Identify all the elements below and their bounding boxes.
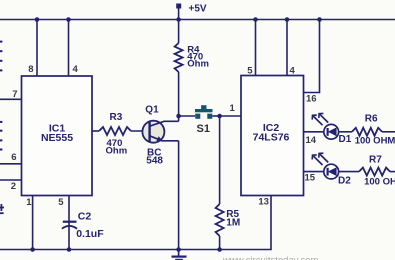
svg-text:16: 16	[306, 94, 317, 105]
wire IC1 pin7 stub	[0, 98, 22, 100]
wire IC1 pin4 to rail	[68, 20, 70, 77]
wire IC1 pin8 to rail	[36, 20, 38, 77]
wire IC1 pin5 through C2 to rail	[68, 196, 70, 250]
junction nodes on ground rail	[30, 247, 222, 252]
svg-text:R3: R3	[110, 112, 123, 123]
svg-text:1M: 1M	[226, 217, 240, 228]
svg-text:0.1uF: 0.1uF	[76, 228, 104, 240]
svg-text:13: 13	[258, 197, 269, 208]
svg-text:1: 1	[26, 197, 32, 208]
svg-text:2: 2	[11, 181, 16, 192]
svg-text:D2: D2	[338, 176, 351, 187]
capacitor C2	[62, 211, 104, 241]
+5V terminal	[176, 4, 207, 20]
svg-text:Ohm: Ohm	[187, 59, 209, 70]
wire R3 to Q1 base	[131, 130, 149, 132]
svg-text:548: 548	[146, 156, 163, 167]
wire IC2 pin15 to D2	[304, 171, 325, 173]
svg-text:6: 6	[11, 152, 16, 163]
resistor R5	[216, 204, 241, 236]
svg-text:8: 8	[28, 64, 33, 75]
ground	[172, 250, 187, 260]
wire Q1 emitter to ground rail	[178, 141, 180, 250]
wire R5 to rail	[219, 236, 221, 250]
wire IC1 pin3 to R3	[92, 130, 99, 132]
transistor Q1 BC548	[142, 104, 178, 166]
svg-text:NE555: NE555	[41, 132, 73, 144]
svg-text:www.circuitstoday.com: www.circuitstoday.com	[222, 255, 318, 260]
svg-text:R6: R6	[365, 114, 378, 125]
cropped plus mark at left edge	[0, 204, 4, 213]
svg-text:5: 5	[247, 66, 253, 77]
svg-text:100 OHM: 100 OHM	[364, 176, 395, 187]
svg-text:100 OHM: 100 OHM	[355, 136, 395, 147]
pushbutton S1	[195, 105, 213, 135]
wire +5V top rail	[0, 19, 395, 21]
wire IC2 pin4 to rail	[286, 20, 288, 76]
svg-text:1: 1	[230, 103, 236, 114]
svg-text:Ohm: Ohm	[106, 146, 128, 157]
svg-text:5: 5	[58, 197, 64, 208]
svg-text:D1: D1	[339, 134, 352, 145]
LED D2	[312, 153, 351, 187]
svg-text:Q1: Q1	[145, 104, 159, 115]
junction node S1 right	[217, 114, 222, 119]
cropped component stubs at left edge	[0, 41, 2, 151]
wire node to S1 left contact	[179, 115, 196, 117]
wire bottom ground rail	[0, 196, 271, 250]
resistor R4	[175, 43, 209, 72]
wire S1 node down to Q1 collector	[178, 116, 180, 121]
svg-text:15: 15	[305, 172, 316, 183]
wire D2 to R7	[339, 171, 360, 173]
wire IC2 pin5 to rail	[255, 20, 257, 76]
svg-text:74LS76: 74LS76	[253, 132, 290, 144]
wire R6 to right edge	[382, 131, 395, 133]
wire node to IC2 pin1	[220, 115, 241, 117]
wire R4 to S1 node	[178, 72, 180, 116]
wire D1 to R6	[339, 131, 353, 133]
LED D1	[312, 113, 352, 145]
svg-text:+5V: +5V	[189, 4, 207, 15]
resistor R6	[352, 114, 395, 147]
junction nodes on +5V rail	[35, 17, 322, 22]
wire node down to R5	[219, 116, 221, 204]
wire IC2 pin16 to rail	[304, 20, 320, 93]
wire IC1 pin6 stub	[0, 163, 22, 165]
svg-text:S1: S1	[197, 123, 210, 135]
wire IC1 pin2 stub	[0, 179, 22, 181]
wire IC1 pin1 down	[32, 196, 34, 250]
svg-text:4: 4	[290, 66, 296, 77]
wire S1 right contact to node	[212, 115, 219, 117]
IC1 NE555	[22, 76, 93, 196]
svg-text:R7: R7	[369, 155, 382, 166]
resistor R7	[359, 155, 395, 188]
wire R7 to right edge	[390, 171, 395, 173]
IC2 74LS76	[241, 76, 304, 196]
svg-text:14: 14	[306, 135, 317, 146]
svg-text:7: 7	[12, 89, 17, 100]
svg-text:4: 4	[73, 64, 79, 75]
resistor R3	[99, 112, 131, 157]
junction node S1 left	[176, 114, 181, 119]
svg-text:C2: C2	[78, 211, 92, 223]
wire rail to R4	[178, 20, 180, 44]
wire IC2 pin14 to D1	[304, 131, 325, 133]
